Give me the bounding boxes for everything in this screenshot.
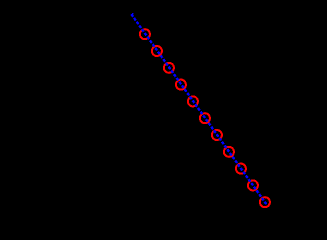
marker 3 (164, 63, 174, 73)
marker 8 (224, 147, 234, 157)
marker 2 (152, 46, 162, 56)
line tip fragment (132, 13, 134, 15)
marker 6 (200, 113, 210, 123)
marker 1 (140, 29, 150, 39)
marker 10 (248, 180, 258, 190)
fit line: blue dashed (131, 14, 267, 205)
marker 7 (212, 130, 222, 140)
marker 11 (260, 197, 270, 207)
marker 5 (188, 96, 198, 106)
data markers: red circles (140, 29, 270, 207)
marker 4 (176, 80, 186, 90)
marker 9 (236, 164, 246, 174)
